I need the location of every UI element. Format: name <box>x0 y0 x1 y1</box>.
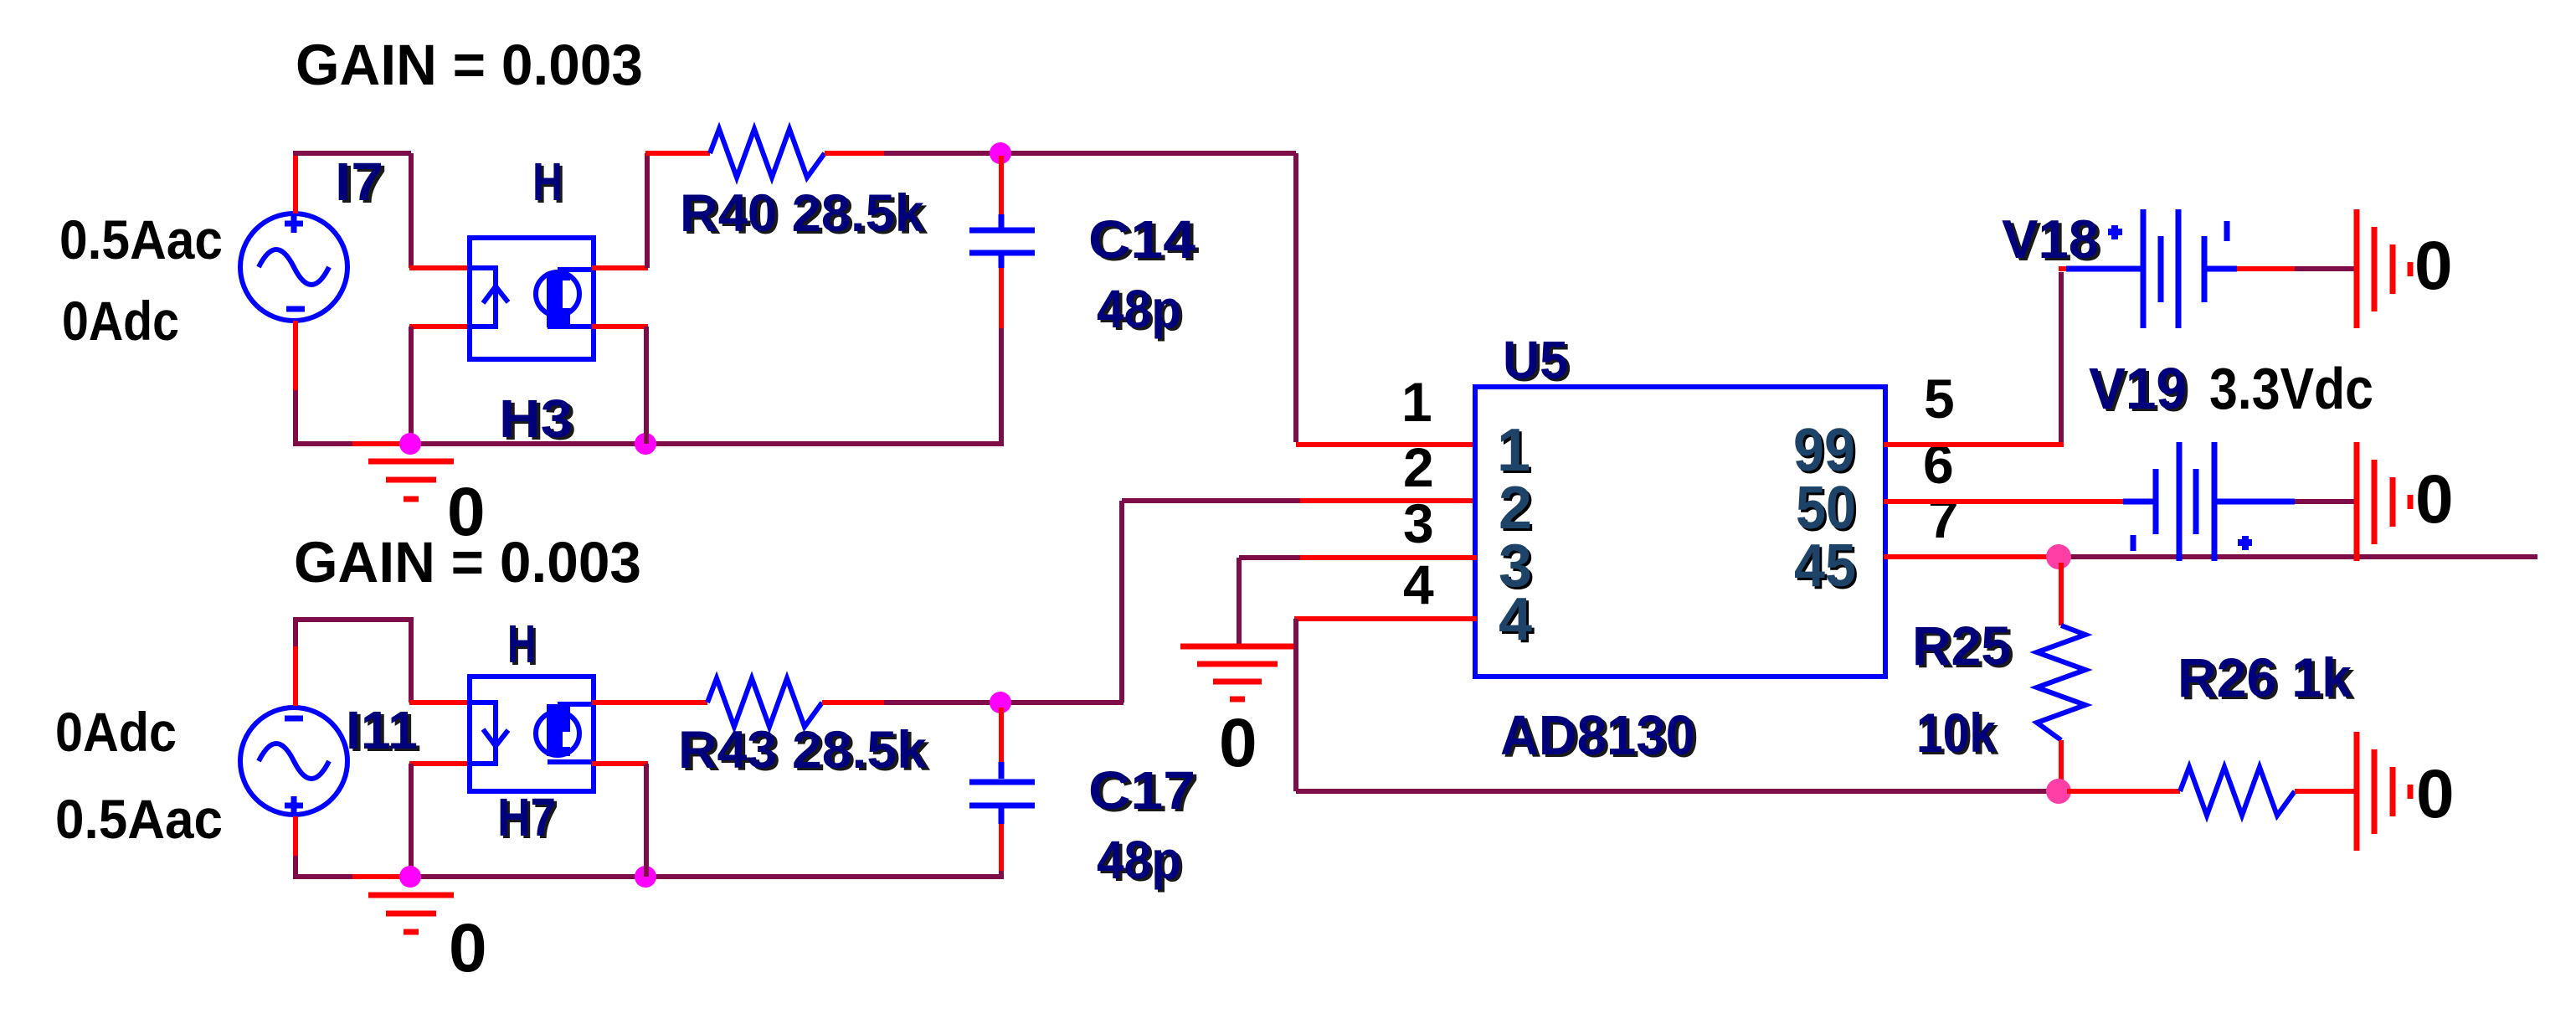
wire I11 top to H7 sense input <box>293 646 298 706</box>
wire V18 minus to ground <box>2237 266 2295 271</box>
H7 dependent source circle <box>547 704 570 756</box>
H3 dependent source circle <box>547 274 570 327</box>
junction dot feedback node <box>2046 779 2071 804</box>
svg-text:R43 28.5k: R43 28.5k <box>678 721 928 780</box>
current source I7 <box>240 214 347 321</box>
svg-text:H: H <box>532 152 563 212</box>
wire ground run top <box>293 441 352 446</box>
junction dot R40 C14 node <box>990 142 1011 164</box>
wire H3 output bottom to ground run <box>592 324 648 329</box>
wire R26 to ground <box>2295 789 2356 794</box>
svg-text:H: H <box>507 614 536 674</box>
ground 0 of V19 <box>2357 442 2410 561</box>
svg-text:0.5Aac: 0.5Aac <box>55 788 223 850</box>
resistor R40 <box>710 129 825 178</box>
svg-text:R25: R25 <box>1912 615 2011 677</box>
svg-text:10k: 10k <box>1916 702 1996 764</box>
svg-text:50: 50 <box>1796 475 1856 542</box>
svg-text:0: 0 <box>2415 461 2454 538</box>
wire ground run bottom <box>293 874 352 879</box>
svg-text:2: 2 <box>1403 436 1434 498</box>
wire R40 to U5 pin 1 <box>825 151 884 156</box>
wire H7 output top to R43 <box>592 700 707 705</box>
svg-text:GAIN = 0.003: GAIN = 0.003 <box>294 530 641 594</box>
resistor R43 <box>707 678 822 727</box>
current source I11 <box>240 708 347 815</box>
ground 0 of I11 <box>368 895 454 932</box>
svg-text:1: 1 <box>1401 371 1432 433</box>
wire R25 bottom to feedback node <box>2059 740 2064 791</box>
ground 0 at U5 pin 3 <box>1180 646 1294 699</box>
ground 0 of I7 <box>368 461 454 499</box>
junction dot at ground bottom <box>399 866 421 888</box>
svg-text:4: 4 <box>1499 586 1532 653</box>
battery V18 <box>2059 266 2066 271</box>
junction dot at ground top <box>399 433 421 455</box>
wire C17 bottom to ground run <box>999 824 1004 871</box>
svg-text:0.5Aac: 0.5Aac <box>59 208 223 270</box>
junction dot H7 output bottom <box>635 866 656 888</box>
svg-text:V19: V19 <box>2089 356 2187 421</box>
svg-text:C17: C17 <box>1088 760 1195 821</box>
CCCS H3 <box>470 238 594 359</box>
svg-text:99: 99 <box>1793 417 1855 484</box>
wire I7 plus to H3 sense input <box>293 156 298 214</box>
svg-text:0Adc: 0Adc <box>55 701 177 763</box>
junction dot output node <box>2046 544 2071 569</box>
CCCS H7 <box>470 677 594 791</box>
svg-text:1: 1 <box>1497 417 1530 484</box>
wire I7 minus down to ground run <box>293 321 298 390</box>
svg-text:U5: U5 <box>1503 330 1568 390</box>
svg-text:2: 2 <box>1499 475 1532 542</box>
svg-text:AD8130: AD8130 <box>1500 704 1695 767</box>
svg-text:0: 0 <box>449 910 487 986</box>
svg-text:5: 5 <box>1924 368 1955 430</box>
resistor R25 <box>2037 625 2085 740</box>
svg-text:0: 0 <box>1219 705 1257 781</box>
svg-text:H7: H7 <box>497 787 556 847</box>
svg-text:C14: C14 <box>1088 209 1195 270</box>
svg-text:0: 0 <box>2414 228 2453 304</box>
svg-text:3.3Vdc: 3.3Vdc <box>2209 356 2373 421</box>
capacitor C14 <box>999 156 1004 214</box>
wire H3 sense minus to ground run <box>409 324 471 329</box>
svg-text:4: 4 <box>1403 553 1434 615</box>
wire U5 pin 45 output node <box>1884 554 2051 559</box>
svg-text:H3: H3 <box>499 389 573 449</box>
op-amp U5 AD8130 box <box>1475 387 1885 677</box>
svg-text:48p: 48p <box>1097 279 1181 339</box>
resistor R26 <box>2180 767 2295 816</box>
svg-text:48p: 48p <box>1097 830 1181 890</box>
wire U5 pin 3 to ground <box>1239 558 1300 645</box>
svg-text:I11: I11 <box>346 700 418 760</box>
wire H3 output top to R40 <box>592 265 648 270</box>
svg-text:3: 3 <box>1403 492 1434 554</box>
ground 0 of R26 <box>2357 732 2410 851</box>
svg-text:45: 45 <box>1794 533 1856 600</box>
wire R43 to U5 pin 2 <box>822 700 884 705</box>
wire U5 pin 99 to V18 plus <box>1884 442 2064 447</box>
wire V19 to ground <box>2295 499 2355 504</box>
wire H7 output bottom to ground run <box>592 761 648 766</box>
battery V19 <box>2123 442 2295 561</box>
svg-text:R40 28.5k: R40 28.5k <box>680 184 925 243</box>
svg-text:0: 0 <box>2416 756 2455 832</box>
wire C14 bottom to ground run <box>999 268 1004 328</box>
svg-text:V18: V18 <box>2002 208 2099 270</box>
ground 0 of V18 <box>2357 209 2410 328</box>
wire I11 minus down to ground run <box>293 816 298 856</box>
svg-text:R26 1k: R26 1k <box>2178 646 2352 708</box>
wire U5 pin 50 to V19 <box>1884 499 2123 504</box>
svg-text:0Adc: 0Adc <box>62 290 179 352</box>
wire U5 pin 4 feedback from output node <box>1294 616 1477 621</box>
wire output node to R25 <box>2059 563 2064 625</box>
svg-text:GAIN = 0.003: GAIN = 0.003 <box>296 33 643 97</box>
svg-text:7: 7 <box>1928 487 1959 549</box>
capacitor C17 <box>999 708 1004 762</box>
junction dot H3 output bottom <box>635 433 656 455</box>
svg-text:I7: I7 <box>335 152 383 212</box>
junction dot R43 C17 node <box>990 692 1011 713</box>
wire feedback node to R26 <box>2067 789 2180 794</box>
wire H7 sense minus to ground run <box>409 761 471 766</box>
